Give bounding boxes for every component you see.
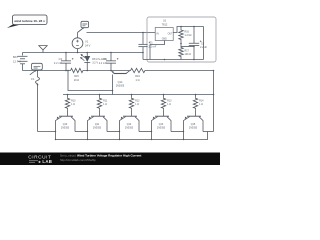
svg-text:http://circuitlab.com/c5hw5p: http://circuitlab.com/c5hw5p	[60, 158, 96, 162]
svg-text:F1: F1	[31, 77, 35, 81]
svg-text:✱: ✱	[38, 160, 41, 164]
svg-text:2.2 mF: 2.2 mF	[99, 62, 107, 65]
svg-text:2N3055: 2N3055	[125, 128, 134, 130]
svg-text:R19: R19	[135, 75, 140, 78]
svg-text:2N3055: 2N3055	[116, 84, 125, 87]
svg-text:R17: R17	[185, 49, 190, 52]
svg-text:wind turbine 16- 28 v: wind turbine 16- 28 v	[13, 19, 45, 23]
svg-text:2N3055: 2N3055	[189, 128, 198, 130]
svg-text:7812: 7812	[162, 22, 168, 26]
svg-text:Q15: Q15	[191, 123, 196, 126]
svg-text:1 Ω: 1 Ω	[71, 103, 75, 106]
svg-text:R13: R13	[167, 99, 172, 102]
svg-text:R14: R14	[199, 99, 204, 102]
svg-text:R16: R16	[185, 30, 190, 33]
svg-text:R15: R15	[74, 75, 79, 78]
svg-text:R12: R12	[135, 99, 140, 102]
svg-text:Q12: Q12	[127, 123, 132, 126]
svg-text:V1: V1	[85, 40, 89, 44]
svg-text:3.2 V: 3.2 V	[92, 61, 98, 64]
svg-text:20 Ω: 20 Ω	[74, 79, 79, 82]
svg-text:OUT: OUT	[168, 33, 173, 35]
svg-text:2N3055: 2N3055	[61, 128, 70, 130]
svg-text:U1: U1	[163, 19, 167, 23]
svg-text:1 Ω: 1 Ω	[199, 103, 203, 106]
svg-text:R11: R11	[103, 99, 108, 102]
svg-text:12.7 V: 12.7 V	[13, 59, 21, 63]
svg-text:24 V: 24 V	[85, 44, 91, 48]
svg-text:IN: IN	[157, 33, 160, 35]
svg-text:Q11: Q11	[95, 123, 100, 126]
svg-text:1 Ω: 1 Ω	[135, 103, 139, 106]
svg-text:Q10: Q10	[63, 123, 68, 126]
svg-text:R10: R10	[71, 99, 76, 102]
svg-text:C3: C3	[59, 57, 63, 61]
svg-text:1.2 kΩ: 1.2 kΩ	[185, 34, 192, 37]
svg-text:Q13: Q13	[159, 123, 164, 126]
svg-text:2N3055: 2N3055	[93, 128, 102, 130]
svg-text:Q14: Q14	[118, 81, 123, 84]
svg-text:1 Ω: 1 Ω	[167, 103, 171, 106]
svg-text:LAB: LAB	[42, 159, 52, 164]
svg-text:2.2 mF: 2.2 mF	[54, 61, 62, 65]
svg-text:1 Ω: 1 Ω	[136, 79, 140, 82]
svg-text:100 Ω: 100 Ω	[185, 53, 192, 56]
svg-text:2N3055: 2N3055	[157, 128, 166, 130]
svg-text:1 Ω: 1 Ω	[103, 103, 107, 106]
svg-text:GND: GND	[162, 39, 167, 41]
svg-text:BAT: BAT	[13, 55, 18, 59]
